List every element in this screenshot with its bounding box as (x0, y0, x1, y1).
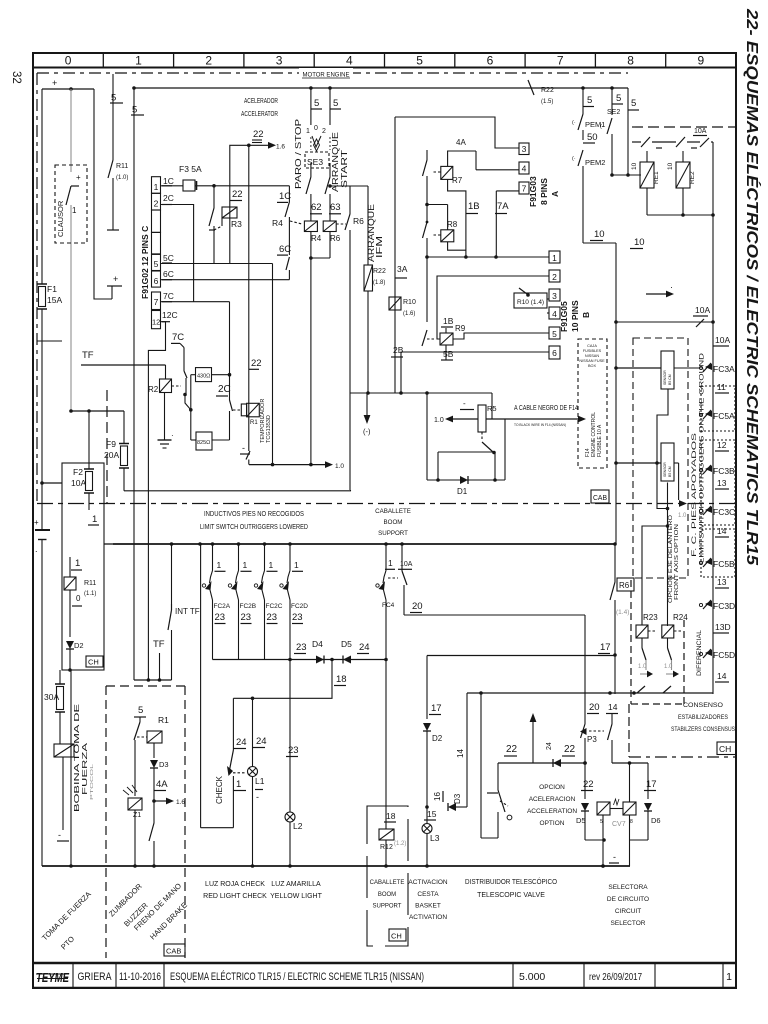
svg-text:4: 4 (522, 164, 527, 174)
svg-text:B: B (581, 312, 591, 318)
svg-text:CH: CH (88, 658, 99, 667)
svg-text:20A: 20A (104, 450, 119, 460)
svg-text:FUERZA: FUERZA (80, 743, 89, 795)
svg-text:-: - (58, 830, 61, 840)
svg-text:R6: R6 (619, 581, 630, 590)
svg-text:FC2C: FC2C (266, 603, 283, 610)
limit switch FC5B (699, 561, 702, 564)
svg-text:R11: R11 (84, 580, 96, 587)
wire PEM vertical (581, 86, 585, 90)
svg-text:PEM2: PEM2 (585, 158, 605, 167)
svg-text:1.0: 1.0 (434, 417, 444, 424)
connector F91G02 pin boxes (152, 177, 161, 194)
svg-text:13: 13 (717, 577, 727, 587)
svg-text:R8: R8 (447, 220, 458, 229)
svg-text:12: 12 (717, 440, 727, 450)
switch R22 (1.5) (528, 80, 534, 95)
svg-text:22: 22 (232, 189, 243, 200)
svg-text:CH: CH (719, 744, 731, 754)
svg-text:7: 7 (522, 184, 527, 194)
switch lower R1 (153, 801, 155, 823)
wire loop to F91G03 pin 3 (395, 117, 519, 148)
D1 loop (437, 452, 439, 480)
caballete boom support box (367, 806, 408, 946)
svg-text:R5: R5 (487, 404, 497, 413)
svg-text:+: + (52, 78, 57, 88)
relay RE1 (641, 137, 650, 147)
MOTOR ENGINE zone label (299, 68, 353, 78)
relay coil R9 (440, 333, 453, 345)
svg-text:2: 2 (205, 54, 212, 68)
nissan fuse box dashed (578, 339, 607, 468)
svg-text:22: 22 (583, 779, 594, 790)
svg-text:5: 5 (154, 259, 159, 269)
limit switch FC2D (289, 544, 291, 571)
svg-text:5: 5 (587, 95, 592, 106)
svg-text:5: 5 (552, 329, 557, 339)
limit switch FC5D (699, 652, 702, 655)
svg-text:10: 10 (594, 229, 605, 240)
svg-text:FC3B: FC3B (713, 466, 735, 476)
svg-text:8: 8 (627, 54, 634, 68)
svg-text:SE3: SE3 (307, 157, 323, 167)
svg-text:A CABLE NEGRO DE F14: A CABLE NEGRO DE F14 (514, 403, 578, 412)
svg-text:30A: 30A (44, 692, 59, 702)
svg-text:13: 13 (717, 478, 727, 488)
svg-text:1: 1 (92, 514, 97, 525)
svg-text:-: - (256, 792, 259, 802)
svg-text:23: 23 (267, 612, 278, 623)
svg-text:22- ESQUEMAS ELÉCTRICOS / ELEC: 22- ESQUEMAS ELÉCTRICOS / ELECTRIC SCHEM… (743, 8, 762, 566)
svg-text:6: 6 (487, 54, 494, 68)
relay coil bobina (59, 712, 61, 744)
svg-text:1: 1 (552, 253, 557, 263)
svg-text:8: 8 (630, 819, 633, 825)
svg-text:825Ω: 825Ω (197, 440, 210, 446)
svg-text:20: 20 (589, 702, 600, 713)
wire resistor join vertical 2C (229, 302, 231, 375)
net 20 P3 leg (584, 615, 586, 724)
svg-text:5: 5 (138, 705, 143, 716)
lamp L2 leg 23 (288, 658, 292, 662)
negative arrow (364, 415, 371, 424)
limit switch FC3D (699, 603, 702, 606)
wire 5C (161, 263, 273, 265)
svg-text:2C: 2C (163, 193, 174, 203)
dotted box 12 13 (701, 440, 735, 525)
wire 4A loop (448, 151, 476, 166)
svg-text:6C: 6C (279, 244, 291, 255)
battery right branch (94, 89, 112, 299)
svg-text:FC2A: FC2A (214, 603, 231, 610)
svg-text:(1.2): (1.2) (394, 841, 406, 847)
bus 693 (467, 692, 713, 694)
relay coil R3 (222, 207, 237, 218)
svg-text:CLAUSOR: CLAUSOR (56, 200, 65, 237)
svg-text:5C: 5C (163, 253, 174, 263)
svg-text:10A: 10A (715, 335, 730, 345)
svg-text:L3: L3 (430, 833, 440, 843)
svg-text:7C: 7C (172, 332, 184, 343)
svg-text:FC2B: FC2B (240, 603, 257, 610)
junction from R6 line (328, 184, 332, 188)
svg-text:5B: 5B (443, 349, 454, 359)
svg-text:1.0: 1.0 (638, 664, 647, 670)
svg-text:10: 10 (667, 162, 674, 170)
zone dash line right top (632, 126, 736, 128)
arrow symbol mid right (646, 293, 666, 295)
svg-text:ACTIVATION: ACTIVATION (409, 914, 447, 921)
svg-text:OPCION: OPCION (539, 784, 565, 791)
svg-text:5: 5 (132, 105, 137, 116)
wire lower 10 (583, 242, 616, 244)
wire 1C from fuse to net (195, 185, 289, 187)
fuse R5 (478, 405, 486, 432)
wire battery to fuse box (42, 482, 62, 484)
svg-text:(1.6): (1.6) (403, 311, 415, 317)
svg-text:6: 6 (552, 348, 557, 358)
svg-text:FC2D: FC2D (291, 603, 308, 610)
svg-text:1: 1 (236, 779, 241, 790)
svg-text:NISSAN: NISSAN (585, 354, 599, 358)
wire right 5 feed (627, 88, 629, 110)
svg-text:SELECTORA: SELECTORA (608, 884, 648, 891)
svg-text:18: 18 (386, 811, 396, 821)
svg-text:0: 0 (76, 594, 81, 603)
svg-text:R10: R10 (403, 299, 416, 306)
svg-text:OPTION: OPTION (540, 820, 565, 827)
svg-text:DE CIRCUITO: DE CIRCUITO (607, 896, 649, 903)
svg-text:FRONT AXIS OPTION: FRONT AXIS OPTION (674, 524, 680, 600)
svg-text:7A: 7A (497, 201, 509, 212)
svg-text:R6: R6 (353, 216, 364, 226)
svg-text:LIMIT SWITCH OUTRIGGERS LOWERE: LIMIT SWITCH OUTRIGGERS LOWERED (200, 524, 308, 531)
svg-text:BOOM: BOOM (378, 892, 396, 898)
svg-text:RED LIGHT CHECK: RED LIGHT CHECK (203, 893, 267, 900)
svg-text:4A: 4A (156, 779, 168, 790)
svg-text:·: · (670, 282, 673, 292)
svg-text:4: 4 (346, 54, 353, 68)
wire 17 left leg down to D2 (426, 656, 428, 720)
wire return left grey (70, 670, 72, 866)
svg-text:1C: 1C (163, 176, 174, 186)
svg-text:rev 26/09/2017: rev 26/09/2017 (589, 971, 642, 983)
svg-text:1.6: 1.6 (176, 799, 185, 806)
svg-text:F2: F2 (73, 467, 83, 477)
svg-text:14: 14 (717, 671, 727, 681)
svg-text:10A: 10A (694, 128, 707, 135)
svg-text:0: 0 (314, 125, 318, 132)
grey arrow R24 (671, 660, 673, 670)
svg-text:1: 1 (72, 206, 77, 215)
wire TF down to R2 (165, 365, 167, 379)
wire pin1 (427, 256, 549, 258)
wire SE2 to RE coils (612, 174, 641, 176)
relay RE2 (676, 137, 685, 147)
consenso switches on bus (637, 686, 645, 693)
svg-text:8 PINS: 8 PINS (539, 178, 549, 205)
net 17 wire horizontal (427, 655, 615, 657)
svg-text:BOX: BOX (588, 364, 596, 368)
svg-text:TO BLACK WIRE IN F14 (NISSAN): TO BLACK WIRE IN F14 (NISSAN) (514, 422, 567, 427)
svg-text:5: 5 (631, 98, 636, 109)
svg-text:ACCELERATOR: ACCELERATOR (241, 111, 278, 118)
svg-text:DIFERENCIAL: DIFERENCIAL (696, 630, 703, 676)
svg-text:FC5D: FC5D (713, 650, 735, 660)
tf horizontal wire (134, 679, 172, 681)
node 5 second vertical long (132, 86, 136, 90)
relay coil R22 (1.8) vertical (367, 186, 369, 265)
svg-text:10 PINS: 10 PINS (570, 300, 580, 332)
svg-text:2: 2 (322, 128, 326, 135)
wire R6 contact line down to F9 return (349, 186, 351, 207)
svg-text:17: 17 (431, 703, 442, 714)
svg-text:BOOM: BOOM (384, 519, 403, 526)
wire node 302 (161, 301, 230, 303)
svg-text:(1.4): (1.4) (616, 609, 629, 616)
SE3 dashed box (305, 152, 329, 168)
svg-text:ESTABILIZADORES: ESTABILIZADORES (678, 714, 729, 721)
lamp L1 (252, 698, 254, 766)
timer relay R1 (241, 404, 246, 416)
CH box right (717, 742, 736, 755)
svg-text:17: 17 (600, 642, 611, 653)
wire pin4 horizontal (476, 169, 519, 171)
svg-text:R10 (1.4): R10 (1.4) (517, 299, 544, 306)
svg-text:LUZ AMARILLA: LUZ AMARILLA (271, 881, 321, 888)
svg-text:FC3A: FC3A (713, 364, 735, 374)
sensors dashed box (633, 338, 688, 578)
wire below timer with break (248, 451, 250, 460)
relay coil R7 (441, 166, 453, 179)
svg-text:CONSENSO: CONSENSO (683, 702, 723, 709)
relay coil R10 (1.6) (389, 297, 401, 310)
svg-text:FC3D: FC3D (713, 601, 735, 611)
svg-text:10: 10 (631, 162, 638, 170)
svg-text:9: 9 (698, 54, 705, 68)
svg-text:TF: TF (82, 350, 94, 361)
svg-text:0: 0 (65, 54, 72, 68)
svg-text:1: 1 (306, 128, 310, 135)
vertical wire SE3 arranque (328, 86, 332, 90)
svg-text:R22: R22 (373, 268, 386, 275)
svg-text:SENSOR: SENSOR (663, 462, 667, 477)
valve switch opcion (497, 763, 499, 790)
svg-text:12: 12 (152, 318, 160, 327)
svg-text:D1: D1 (457, 487, 468, 496)
svg-text:-: - (242, 443, 245, 453)
CH box caballete (389, 929, 406, 941)
wire sensor1 row (616, 367, 661, 369)
svg-text:10A: 10A (71, 478, 86, 488)
svg-text:P3: P3 (587, 735, 597, 744)
title block outline (33, 962, 736, 964)
svg-text:24: 24 (359, 642, 370, 653)
svg-text:TELESCOPIC VALVE: TELESCOPIC VALVE (477, 892, 545, 899)
node 5 left vertical (112, 74, 114, 160)
svg-text:1: 1 (217, 560, 222, 570)
wire P3 down join (584, 738, 586, 763)
svg-text:7: 7 (557, 54, 564, 68)
wire down from F9 line (133, 87, 135, 89)
svg-text:50: 50 (587, 132, 598, 143)
svg-text:23: 23 (215, 612, 226, 623)
svg-text:START: START (339, 150, 349, 188)
contact R6 right (336, 223, 346, 225)
zone dash line middle CAB boundary (37, 503, 736, 505)
wire opcion left leg (480, 693, 482, 838)
svg-text:ESQUEMA ELÉCTRICO TLR15 / ELEC: ESQUEMA ELÉCTRICO TLR15 / ELECTRIC SCHEM… (170, 970, 424, 983)
svg-text:IFM: IFM (374, 236, 384, 258)
wire 12C jog down (148, 322, 165, 680)
svg-text:15: 15 (427, 809, 437, 819)
wire R8 top feed (427, 204, 448, 206)
svg-text:F. C. PIES APOYADOS: F. C. PIES APOYADOS (692, 433, 698, 557)
svg-text:6: 6 (154, 276, 159, 286)
svg-text:DISTRIBUIDOR TELESCÓPICO: DISTRIBUIDOR TELESCÓPICO (465, 877, 557, 886)
svg-text:2C: 2C (218, 384, 231, 395)
svg-text:ACELERADOR: ACELERADOR (244, 98, 278, 105)
zone dash line bottom right CH boundary (628, 704, 630, 757)
feed wire y411 (71, 410, 124, 412)
relay coil R12 (379, 829, 394, 840)
grey arrow 1.0 sensor out (678, 463, 680, 500)
vertical main wire 3A/2B (394, 117, 396, 393)
svg-text:FC3C: FC3C (713, 507, 735, 517)
cv7 bottom connections (585, 839, 603, 841)
svg-text:1.0: 1.0 (664, 664, 673, 670)
connector F91G05 10 PINS B (549, 251, 560, 263)
svg-text:1: 1 (388, 558, 393, 568)
relay coil R6 (323, 221, 336, 232)
long vertical 22 second (272, 264, 274, 465)
CV7 valve coils (597, 802, 610, 815)
diode D3 bottom (150, 760, 158, 768)
svg-text:ACELERACION: ACELERACION (529, 796, 576, 803)
svg-text:10: 10 (634, 237, 645, 248)
bottom bus (42, 865, 630, 867)
svg-text:CESTA: CESTA (417, 891, 439, 898)
svg-text:R23: R23 (643, 613, 658, 622)
contact to timer R1 (230, 400, 233, 411)
svg-text:F91G02 12 PINS C: F91G02 12 PINS C (140, 226, 150, 299)
svg-text:R22: R22 (541, 87, 554, 94)
svg-text:R7: R7 (452, 176, 463, 185)
buzzer zone dashed box (105, 686, 107, 958)
svg-text:10A: 10A (695, 305, 710, 315)
wire 10A horizontal (616, 321, 713, 323)
CAB box buzzer (164, 944, 185, 956)
svg-text:23: 23 (292, 612, 303, 623)
svg-text:(1.1): (1.1) (84, 591, 96, 597)
D6 leg (647, 763, 649, 799)
wire pin7 horizontal (496, 190, 519, 192)
right feed vertical (712, 142, 714, 694)
wire coils join down (310, 232, 312, 259)
svg-text:3A: 3A (397, 264, 408, 274)
svg-text:5: 5 (333, 98, 338, 109)
svg-text:CIRCUIT: CIRCUIT (615, 908, 641, 915)
svg-text:2: 2 (154, 199, 159, 209)
switch below R5 (481, 432, 483, 441)
fuse F1 15A (37, 283, 47, 285)
contact PEM2 (578, 150, 583, 166)
battery cells symbol (41, 309, 43, 529)
svg-text:ACTIVACION: ACTIVACION (408, 879, 448, 886)
svg-text:5.000: 5.000 (519, 971, 545, 983)
svg-text:18: 18 (336, 674, 347, 685)
svg-text:(1.0): (1.0) (116, 175, 128, 181)
svg-text:ACCELERATION: ACCELERATION (527, 808, 577, 815)
svg-text:2: 2 (552, 272, 557, 282)
svg-text:RE1: RE1 (653, 171, 660, 184)
svg-text:INT TF: INT TF (175, 607, 200, 616)
svg-text:430Ω: 430Ω (197, 374, 210, 380)
svg-text:R2: R2 (148, 385, 159, 394)
svg-text:R3: R3 (231, 219, 242, 229)
svg-text:F3 5A: F3 5A (179, 164, 202, 174)
svg-text:SENSOR: SENSOR (663, 370, 667, 385)
svg-text:17: 17 (646, 779, 657, 790)
contact line R7/R8 (426, 150, 428, 160)
SE3 contacts down (306, 177, 311, 194)
wire 6C (161, 279, 290, 281)
svg-text:F91G05: F91G05 (559, 301, 569, 332)
svg-text:(1.5): (1.5) (541, 99, 553, 105)
wire R7 bottom to 1B (448, 179, 466, 257)
svg-text:1B: 1B (468, 201, 480, 212)
svg-text:FC5A: FC5A (713, 411, 735, 421)
svg-text:LUZ ROJA CHECK: LUZ ROJA CHECK (205, 881, 265, 888)
zone dash line top motor engine (37, 72, 628, 74)
svg-text:D4: D4 (312, 639, 323, 649)
main bus inductivos (113, 543, 615, 545)
svg-text:24: 24 (546, 742, 553, 750)
svg-text:5: 5 (616, 93, 621, 104)
limit switch FC3C (699, 509, 702, 512)
svg-text:B5 CM: B5 CM (668, 466, 672, 477)
horizontal node wire (350, 392, 492, 394)
dashed box drawing R23 R24 (630, 580, 632, 704)
svg-text:(-): (-) (363, 427, 371, 436)
svg-text:13D: 13D (715, 622, 731, 632)
svg-text:SE2: SE2 (607, 109, 620, 116)
svg-text:FC4: FC4 (382, 602, 395, 609)
svg-text:22: 22 (564, 744, 576, 755)
svg-text:INDUCTIVOS PIES NO RECOGIDOS: INDUCTIVOS PIES NO RECOGIDOS (204, 511, 304, 518)
resistor 430 (196, 368, 212, 382)
limit switch FC2A (212, 544, 214, 571)
diode on 22 wire (553, 759, 561, 767)
wire F9 return to R6 line (124, 490, 351, 492)
svg-text:CAB: CAB (593, 493, 607, 502)
svg-text:32: 32 (10, 71, 22, 84)
ground below R2 (164, 393, 166, 441)
svg-text:GRIERA: GRIERA (78, 971, 113, 983)
svg-text:R1: R1 (250, 420, 258, 426)
svg-text:20: 20 (412, 601, 423, 612)
svg-text:L1: L1 (255, 776, 265, 786)
limit switch FC3B (699, 468, 702, 471)
relay coil R4 (304, 221, 317, 232)
svg-text:1: 1 (154, 182, 159, 192)
wire RE coils bottom (646, 188, 648, 215)
svg-text:1.0: 1.0 (678, 513, 687, 519)
resistor 825 (196, 432, 212, 450)
CAB zone label box (591, 490, 609, 503)
clausor dashed box (55, 165, 87, 243)
svg-text:+: + (76, 173, 81, 182)
